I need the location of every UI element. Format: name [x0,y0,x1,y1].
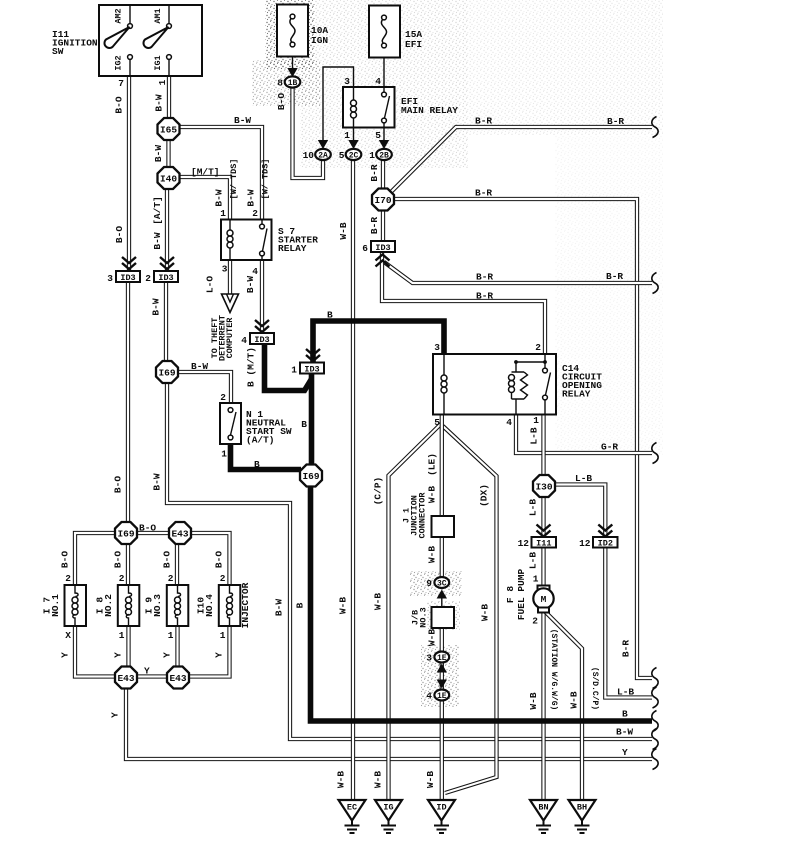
arrow into 2C [348,140,358,149]
wire break B-R top [652,117,658,138]
arrow up into 3 1E [437,664,447,673]
svg-text:Y: Y [622,747,628,758]
wire: injector No.2 return [126,626,130,677]
svg-text:3C: 3C [437,580,447,589]
svg-text:[A/T]: [A/T] [152,196,163,225]
EFI main relay switch [383,87,385,92]
svg-text:NO.2: NO.2 [103,594,114,617]
svg-text:1: 1 [220,208,226,219]
svg-text:1: 1 [369,150,375,161]
svg-text:3: 3 [434,342,440,353]
svg-text:B-R: B-R [606,271,623,282]
svg-text:2B: 2B [379,152,389,161]
wire break B-R middle [652,273,658,294]
svg-text:2: 2 [220,392,226,403]
octagon E43 bottom right [167,667,189,689]
wire: W-B 2C down to EC ground [351,160,355,800]
wire: B-R I70 right then down right side to B-R break bottom [394,199,652,678]
arrow down into 4 1E [437,680,447,689]
svg-text:(STATION W/G.W/G): (STATION W/G.W/G) [549,629,558,711]
svg-text:B-R: B-R [475,188,492,199]
svg-text:5: 5 [339,150,345,161]
svg-text:W-B: W-B [373,593,384,610]
svg-text:B-W: B-W [214,189,225,206]
svg-text:4: 4 [241,335,247,346]
octagon I30 [533,475,555,497]
connector 4 1E [434,690,449,701]
wire: L-B 12 I11 down to fuel pump pin 1 [541,548,545,588]
svg-text:BH: BH [577,803,587,813]
svg-text:2: 2 [252,208,258,219]
wire: B-W [A/T] I40 down to 2 ID3 [165,189,169,271]
svg-text:I11: I11 [536,539,551,549]
wire: drop to injector No.2 [126,533,130,585]
svg-text:EFI: EFI [405,39,422,50]
svg-text:W-B: W-B [338,597,349,614]
svg-text:E43: E43 [169,673,186,684]
wire: B-W I69 right to N1 pin 2 [178,372,231,403]
svg-text:B-R: B-R [369,164,380,181]
wire: L-B below 12 ID2 down right to L-B break [605,548,652,698]
svg-text:2: 2 [168,573,174,584]
octagon I65 [158,118,180,140]
connector 2A [315,149,331,160]
wire: W-B (C/P) from C14 pin 5 fan to IG ground [389,424,441,800]
svg-text:INJECTOR: INJECTOR [240,582,251,628]
ignition switch IG1 terminal [168,60,170,77]
svg-text:W-B: W-B [336,771,347,788]
svg-text:B-O: B-O [214,551,225,568]
svg-text:E43: E43 [171,528,188,539]
svg-text:1: 1 [157,79,168,85]
wire break B [652,711,658,732]
svg-text:2: 2 [532,616,538,627]
octagon I69 injector row [115,522,137,544]
wire: B-W below 2 ID3 down to I69 [164,282,168,362]
chevron arrow into 12 ID2 [598,525,612,537]
stipple background over EFI relay region [300,0,468,168]
svg-text:G-R: G-R [601,442,618,453]
stipple background right of 15A fuse [468,0,663,135]
wire: W-B J/B No.3 to 1E and down to ID ground [440,628,444,800]
svg-text:NO.3: NO.3 [152,594,163,617]
svg-text:(S/D.C/P): (S/D.C/P) [590,667,599,710]
svg-text:B-O: B-O [113,476,124,493]
svg-text:ID3: ID3 [254,335,269,345]
octagon E43 injector row [169,522,191,544]
svg-text:IG: IG [383,803,393,813]
connector 3C [434,577,449,588]
svg-text:2: 2 [65,573,71,584]
svg-text:3: 3 [222,264,228,275]
svg-text:RELAY: RELAY [278,243,307,254]
wire: injector supply row B-O [75,533,230,585]
svg-text:B-W: B-W [245,276,256,293]
wire: injector No.3 return [175,626,179,677]
svg-text:(DX): (DX) [479,484,490,507]
starter relay coil [229,220,231,231]
neutral start switch contacts [228,408,233,413]
svg-text:[W/ TDS]: [W/ TDS] [261,159,271,200]
svg-text:Y: Y [144,666,150,677]
wire: W-B fuel pump pin 2 down to BN ground [541,611,545,800]
wire: W-B J1 to 3C [440,536,444,578]
wire: 15A fuse output to EFI relay pin 4 [383,45,385,87]
svg-text:ID3: ID3 [158,273,173,283]
svg-text:(A/T): (A/T) [246,435,275,446]
svg-text:4: 4 [506,417,512,428]
wire: IG1 B-W from ignition switch down to I65 [167,76,171,120]
injector I9 No.3 box [167,585,189,626]
svg-text:B-W: B-W [191,361,208,372]
svg-text:L-B: L-B [528,499,539,516]
svg-text:9: 9 [426,578,432,589]
svg-text:B: B [254,459,260,470]
svg-text:I40: I40 [160,173,177,184]
connector 12 ID2 [593,537,618,548]
svg-text:IG2: IG2 [114,55,124,70]
svg-text:W-B: W-B [528,692,539,709]
svg-text:3: 3 [344,76,350,87]
svg-text:1: 1 [221,449,227,460]
svg-text:B-R: B-R [476,272,493,283]
wire: W-B (LE) C14 pin 5 to J1 junction connector [440,414,444,516]
svg-text:B-W: B-W [153,145,164,162]
svg-text:1: 1 [533,574,539,585]
ignition switch AM2 terminal [129,5,131,24]
connector 12 I11 [532,537,557,548]
svg-text:B-O: B-O [114,96,125,113]
svg-text:4: 4 [252,266,258,277]
EFI main relay box [343,87,395,128]
fuel pump motor F8 [538,586,550,591]
svg-text:Y: Y [60,652,71,658]
ground BH [569,800,596,821]
svg-text:E43: E43 [117,673,134,684]
svg-text:I30: I30 [535,481,552,492]
svg-text:8: 8 [277,78,283,89]
stipple background around 1E connectors [421,645,459,707]
svg-text:1E: 1E [437,654,447,663]
svg-text:1: 1 [344,130,350,141]
svg-text:I69: I69 [117,528,134,539]
svg-text:5: 5 [434,417,440,428]
wire: W-B (DX) from C14 pin 5 fan down to ID ground [443,426,497,793]
arrow into 1B [287,68,297,77]
svg-text:12: 12 [579,538,591,549]
svg-text:NO.3: NO.3 [419,607,429,627]
connector 1B [285,76,301,87]
svg-text:2: 2 [119,573,125,584]
wire: G-R C14 pin 4 down right to G-R break [516,414,652,453]
svg-text:B-O: B-O [60,551,71,568]
starter relay S7 box [221,220,272,261]
svg-text:ID2: ID2 [598,539,613,549]
svg-text:B-W: B-W [152,232,163,249]
svg-text:X: X [65,630,71,641]
connector 2C [346,149,362,160]
svg-text:4: 4 [375,76,381,87]
connector 3 1E [434,652,449,663]
svg-text:ID3: ID3 [120,273,135,283]
wire: Y from E43 down then right to Y break [126,688,652,759]
octagon I69 left [156,361,178,383]
svg-text:B-R: B-R [621,640,632,657]
svg-text:BN: BN [538,803,548,813]
svg-text:B-R: B-R [475,116,492,127]
starter relay switch [261,220,263,225]
svg-text:[W/ TDS]: [W/ TDS] [229,159,239,200]
svg-text:W-B: W-B [427,486,438,503]
stipple background middle right column [555,135,663,455]
svg-text:B-R: B-R [476,291,493,302]
svg-text:1: 1 [533,415,539,426]
fuse 10A IGN box [277,5,308,57]
wire: thin link EFI relay pin 5 to 2B [383,128,385,141]
svg-text:ID3: ID3 [375,243,390,253]
chevron arrow up into 6 ID3 [376,255,390,267]
octagon E43 bottom left [115,667,137,689]
svg-text:L-B: L-B [617,687,634,698]
svg-text:SW: SW [52,46,64,57]
svg-text:FUEL PUMP: FUEL PUMP [516,569,527,621]
fuse 10A element [290,14,295,19]
svg-text:B-W: B-W [274,599,285,616]
chevron arrow into 2 ID3 [160,257,174,269]
svg-text:MAIN RELAY: MAIN RELAY [401,105,458,116]
wire: B-R I70 down to 6 ID3 [381,210,385,241]
ignition switch AM2 lever [104,27,129,48]
wire: 10A fuse output to 1B [292,45,294,69]
connector 1 ID3 [300,363,324,374]
stipple background around 10A fuse [265,0,315,69]
wire break B-R bottom [652,668,658,689]
wire break L-B [652,687,658,708]
wire: B-R from 6 ID3 diagonal right to B-R break middle [384,262,652,283]
wire: B-R from 6 ID3 down right to C14 pin 2 [382,253,545,354]
svg-text:7: 7 [118,78,124,89]
wire: B-W I65 right to starter relay pin 2 [179,127,262,220]
wire break G-R [652,443,658,464]
ground ID [428,800,455,821]
wire: B-W starter relay pin 4 down to 4 ID3 [260,260,264,333]
svg-text:W-B: W-B [427,546,438,563]
svg-text:ID3: ID3 [304,365,319,375]
octagon I40 [158,167,180,189]
J/B No.3 box [432,607,455,628]
svg-text:[M/T]: [M/T] [191,167,220,178]
svg-text:B-O: B-O [113,551,124,568]
svg-text:M: M [541,594,547,605]
arrow into 2A [318,140,328,149]
svg-text:2A: 2A [318,152,328,161]
svg-text:10: 10 [303,150,315,161]
svg-text:3: 3 [107,273,113,284]
injector I7 No.1 box [65,585,87,626]
ignition switch IG2 terminal [129,60,131,77]
C14 switch [516,354,545,368]
injector I8 No.2 box [118,585,140,626]
svg-text:I69: I69 [158,367,175,378]
wire: thin link EFI relay pin 1 to 2C [353,128,355,141]
svg-text:B-W: B-W [616,727,633,738]
svg-text:Y: Y [214,652,225,658]
wire: L-B I30 down to 12 I11 [541,496,545,537]
svg-text:F 8: F 8 [505,586,516,603]
svg-text:B-W: B-W [234,115,251,126]
svg-text:W-B: W-B [480,604,491,621]
svg-text:2: 2 [145,273,151,284]
svg-text:B-R: B-R [607,116,624,127]
connector 6 ID3 [371,241,395,252]
svg-text:12: 12 [518,538,530,549]
fuse 15A EFI box [369,6,400,58]
stipple background around connector 1B [252,60,320,106]
svg-text:(C/P): (C/P) [373,477,384,506]
wire: thin link EFI relay pin 3 up left down to 2A [323,67,354,140]
svg-text:NO.1: NO.1 [50,594,61,617]
svg-text:2: 2 [535,342,541,353]
svg-text:4: 4 [426,691,432,702]
svg-text:2C: 2C [349,152,359,161]
svg-text:W-B: W-B [569,691,580,708]
chevron arrow into 4 ID3 [255,320,269,332]
ground EC [339,800,366,821]
svg-text:ID: ID [436,803,446,813]
svg-text:B-W: B-W [152,473,163,490]
J1 junction connector box [432,516,455,537]
connector 2B [376,149,392,160]
ignition switch AM1 lever [143,27,168,48]
svg-text:1B: 1B [288,79,298,88]
wire: thick B neutral start switch pin 1 to I69 [231,444,302,470]
svg-text:B: B [622,709,628,720]
ignition switch I11 box [99,5,202,76]
wire: thick B from C14 pin 3 left to 1 ID3 [313,321,444,363]
svg-text:1E: 1E [437,692,447,701]
svg-text:B-O: B-O [114,226,125,243]
svg-text:5: 5 [375,130,381,141]
wire: IG2 B-O from ignition switch down to 3 ID3 [127,76,131,271]
svg-text:Y: Y [110,712,121,718]
C14 inner coil and resistor [512,362,525,415]
wire: thick B below 1 ID3 down to I69 [309,373,315,466]
svg-text:Y: Y [113,652,124,658]
svg-text:RELAY: RELAY [562,389,591,400]
svg-text:1: 1 [291,365,297,376]
svg-text:W-B: W-B [373,771,384,788]
svg-text:IG1: IG1 [153,55,163,70]
stipple background around connector 3C [410,571,462,596]
ground IG [375,800,402,821]
svg-text:B (M/T): B (M/T) [246,347,257,387]
svg-text:B: B [301,419,307,430]
svg-text:W-B: W-B [425,771,436,788]
svg-text:6: 6 [362,243,368,254]
svg-text:W-B: W-B [427,629,438,646]
svg-text:I70: I70 [374,195,391,206]
arrow into 2B [379,140,389,149]
chevron arrow into 1 ID3 [306,349,320,361]
svg-text:B-O: B-O [162,551,173,568]
EFI main relay coil [353,87,355,100]
chevron arrow into 12 I11 [537,525,551,537]
wire: L-O starter relay pin 3 to theft deterrent arrow [228,260,232,297]
neutral start switch N1 box [220,403,241,444]
svg-text:3: 3 [426,653,432,664]
connector 3 ID3 [116,271,140,282]
svg-text:W-B: W-B [338,222,349,239]
wire: B-R I70 diagonal up right to B-R break top [390,127,652,193]
connector 4 ID3 [250,333,274,344]
svg-text:I65: I65 [160,124,177,135]
connector 2 ID3 [154,271,178,282]
wire: W-B fuel pump diagonal to BH ground [546,612,583,800]
wire: thick B I69 down then right to B break [311,486,653,721]
svg-text:B-W: B-W [154,94,165,111]
svg-text:IGN: IGN [311,35,328,46]
svg-text:B-O: B-O [139,523,156,534]
arrow up into 3C [441,598,443,607]
svg-text:1: 1 [168,630,174,641]
wire break Y [652,749,658,770]
svg-text:L-B: L-B [575,473,592,484]
stipple background around J/B No.3 [427,601,460,630]
C14 circuit opening relay box [433,354,556,415]
svg-text:COMPUTER: COMPUTER [225,317,235,359]
svg-text:B-R: B-R [369,217,380,234]
wire: B-W [M/T] I40 right to starter relay pin 1 [179,177,230,220]
wire: B-O 1B down right up to 2A [293,88,324,178]
C14 left coil [443,354,445,375]
wire break B-W [652,729,658,750]
svg-text:I69: I69 [302,471,319,482]
octagon I69 middle [300,465,322,487]
svg-text:B-O: B-O [276,93,287,110]
wire: B-W long run I69 down, right, down to B-W break at right edge [167,383,652,739]
svg-text:B: B [295,602,306,608]
svg-text:L-B: L-B [528,552,539,569]
svg-text:(LE): (LE) [427,453,438,476]
svg-text:EC: EC [347,803,357,813]
svg-text:L-B: L-B [529,427,540,444]
ignition switch AM1 terminal [168,5,170,24]
wire: B-R 2B down to I70 [381,160,385,189]
svg-text:L-O: L-O [205,276,216,293]
svg-text:Y: Y [162,652,173,658]
ground BN [530,800,557,821]
wire: B-O below 3 ID3 down to I69 injector row [126,282,130,523]
svg-text:AM2: AM2 [114,8,124,23]
svg-text:B-W: B-W [246,189,257,206]
injector I10 No.4 box [219,585,241,626]
fuse 15A element [382,15,387,20]
wire: injector return row Y [75,626,230,677]
svg-text:B-W: B-W [151,298,162,315]
wire: L-B C14 pin 1 down to I30 [541,414,545,476]
svg-text:AM1: AM1 [153,8,163,23]
octagon I70 [372,189,394,211]
svg-text:NO.4: NO.4 [204,594,215,617]
svg-text:1: 1 [119,630,125,641]
svg-text:2: 2 [220,573,226,584]
theft deterrent hollow arrow [222,294,239,313]
wire: drop to injector No.3 [175,533,179,585]
svg-text:B: B [327,310,333,321]
svg-text:1: 1 [220,630,226,641]
wire: thick B (M/T) branch from 1 ID3 wire to 4 ID3 [265,342,312,391]
wire: L-B I30 right to 12 ID2 [554,485,605,538]
